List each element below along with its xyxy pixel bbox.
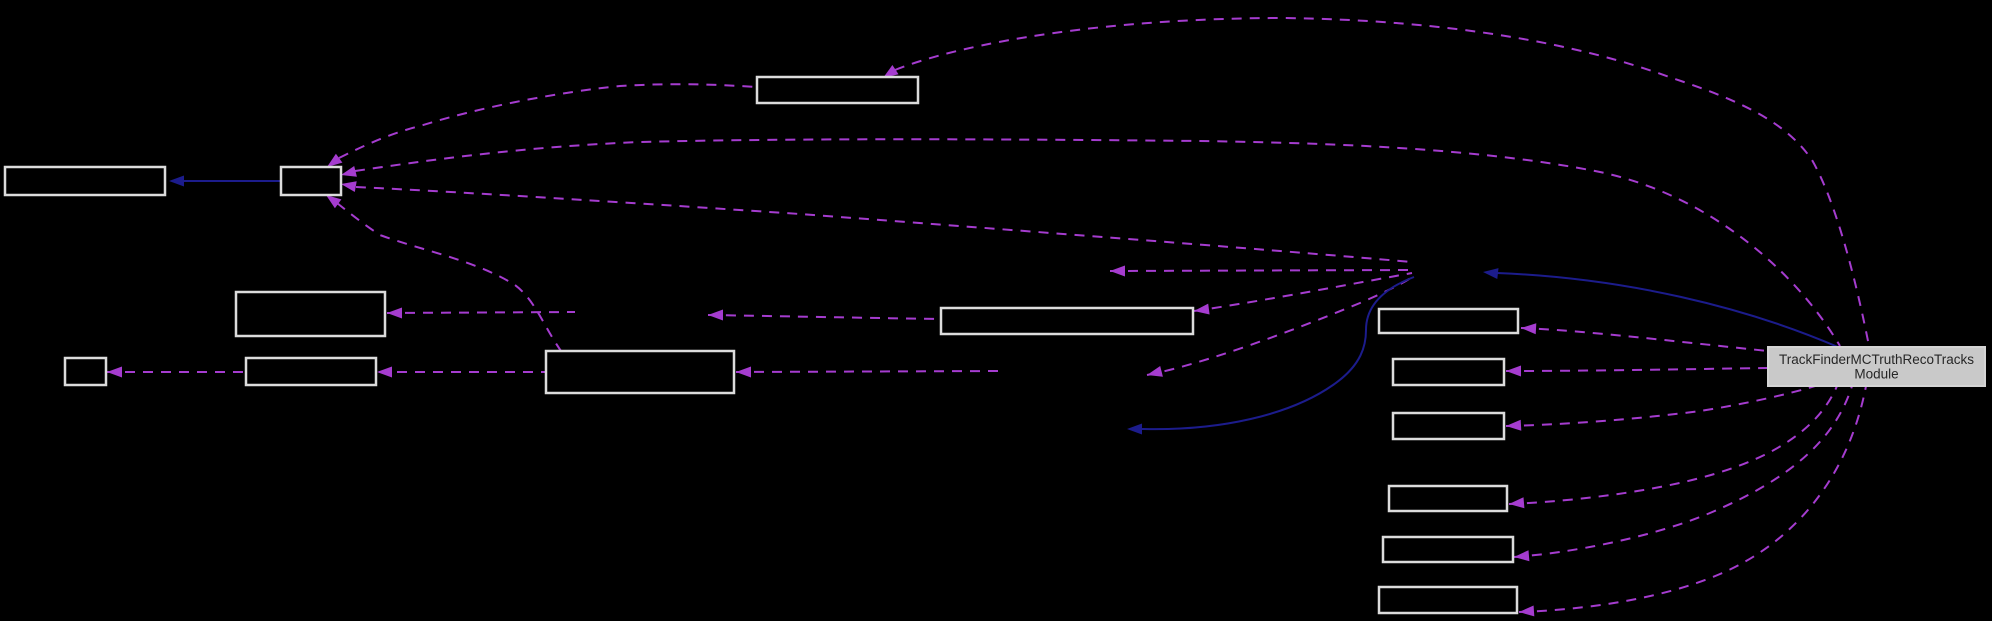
arrow into BD bbox=[736, 367, 751, 378]
node box F6 bbox=[1379, 587, 1517, 613]
node box F5 bbox=[1383, 537, 1513, 562]
wire dashed edge Module to B3 bbox=[356, 187, 1412, 262]
node main TrackFinderMCTruthRecoTracksModule bbox=[1768, 347, 1985, 386]
arrow into Module (blue) bbox=[1483, 268, 1499, 279]
wire dashed edge BE to IB4 bbox=[708, 315, 941, 319]
node box F3 bbox=[1393, 413, 1504, 439]
arrow into B3 right lower bbox=[341, 181, 357, 192]
arrow into F3 bbox=[1506, 420, 1521, 431]
wire dashed edge main node to top box B1 bbox=[895, 18, 1869, 346]
wire dashed edge main node to F3 bbox=[1506, 386, 1815, 426]
arrow into BE bbox=[1194, 304, 1210, 315]
node box BC bbox=[246, 358, 376, 385]
arrow into F4 bbox=[1509, 497, 1524, 508]
node box F4 bbox=[1389, 486, 1507, 511]
wire blue inheritance edge Module to hidden box IB5 bbox=[1142, 277, 1414, 429]
svg-text:TrackFinderMCTruthRecoTracks: TrackFinderMCTruthRecoTracks bbox=[1779, 352, 1974, 367]
wire dashed edge IB4 to BA bbox=[387, 312, 575, 313]
node box BD bbox=[546, 351, 734, 393]
wire dashed edge BD to B3 bbox=[337, 203, 561, 351]
wire dashed edge main node to F4 bbox=[1509, 386, 1837, 504]
arrow into B3 bottom-right bbox=[326, 195, 341, 208]
wire dashed edge Module to hidden box IB2 bbox=[1110, 270, 1412, 271]
wire blue inheritance edge B3 to B2 bbox=[184, 180, 281, 182]
wire dashed edge BC to BB bbox=[107, 371, 246, 373]
node box F2 bbox=[1393, 359, 1504, 385]
wire dashed edge main node to F1 bbox=[1521, 328, 1768, 351]
arrow into hidden IB4 bbox=[708, 310, 723, 321]
node box BE bbox=[941, 308, 1193, 334]
arrow into F1 bbox=[1521, 323, 1536, 334]
wire dashed edge B1 to B3 bbox=[339, 84, 757, 158]
arrow into B3 right upper bbox=[341, 166, 357, 177]
node box BB bbox=[65, 358, 106, 385]
wire dashed edge main node to F2 bbox=[1506, 368, 1768, 371]
wire dashed edge Module to hidden box IB3 bbox=[1147, 277, 1412, 375]
node box B2 bbox=[5, 167, 165, 195]
wire blue inheritance edge main node to Module bbox=[1497, 273, 1838, 347]
arrow into hidden IB3 bbox=[1147, 366, 1163, 377]
arrow into B1 top bbox=[883, 65, 899, 78]
arrow into F5 bbox=[1514, 550, 1529, 561]
arrow into BB bbox=[107, 367, 122, 378]
arrow into BA bbox=[387, 308, 402, 319]
arrow into hidden IB5 (blue) bbox=[1127, 424, 1142, 435]
arrow into F2 bbox=[1506, 366, 1521, 377]
arrow into B3 top-right bbox=[327, 154, 342, 167]
wire dashed edge Module to box BE bbox=[1194, 273, 1412, 311]
wire dashed edge main node to F5 bbox=[1514, 386, 1852, 557]
arrow into F6 bbox=[1519, 606, 1534, 617]
arrow into hidden IB2 bbox=[1110, 266, 1125, 277]
node box F1 bbox=[1379, 309, 1518, 333]
wire dashed edge IB3 to BD bbox=[736, 371, 1000, 372]
arrow into BC bbox=[377, 367, 392, 378]
svg-text:Module: Module bbox=[1854, 367, 1898, 382]
wire dashed edge main node to F6 bbox=[1519, 386, 1866, 612]
node box B3 bbox=[281, 167, 341, 195]
wire dashed edge BD to BC bbox=[379, 371, 546, 373]
wire dashed edge main node to small box B3 bbox=[355, 139, 1840, 346]
node box B1 bbox=[757, 77, 918, 103]
arrow into B2 (blue) bbox=[169, 176, 184, 187]
node box BA bbox=[236, 292, 385, 336]
